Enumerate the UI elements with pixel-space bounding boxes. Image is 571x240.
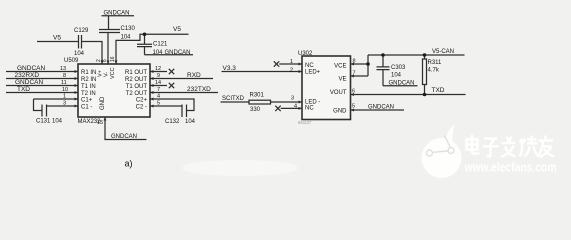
svg-text:GNDCAN: GNDCAN bbox=[389, 81, 415, 87]
svg-text:V-: V- bbox=[104, 72, 110, 77]
svg-text:LED+: LED+ bbox=[305, 69, 321, 75]
svg-text:4.7k: 4.7k bbox=[428, 68, 440, 74]
svg-text:6: 6 bbox=[352, 89, 355, 95]
svg-text:R2 OUT: R2 OUT bbox=[125, 77, 147, 83]
svg-text:R2 IN: R2 IN bbox=[81, 77, 96, 83]
svg-text:TXD: TXD bbox=[432, 87, 445, 94]
svg-text:a): a) bbox=[125, 159, 133, 169]
svg-text:V5: V5 bbox=[53, 35, 61, 42]
svg-text:330: 330 bbox=[250, 107, 261, 113]
svg-text:7: 7 bbox=[157, 87, 160, 93]
svg-text:R301: R301 bbox=[250, 92, 265, 98]
svg-text:VCE: VCE bbox=[334, 63, 346, 69]
svg-text:9: 9 bbox=[157, 73, 160, 79]
svg-text:V3.3: V3.3 bbox=[223, 65, 237, 72]
svg-text:3: 3 bbox=[63, 101, 66, 107]
svg-text:GNDCAN: GNDCAN bbox=[17, 65, 45, 72]
svg-text:GNDCAN: GNDCAN bbox=[15, 79, 43, 86]
svg-text:104: 104 bbox=[121, 35, 132, 41]
svg-text:8: 8 bbox=[353, 59, 356, 65]
svg-text:U509: U509 bbox=[64, 58, 79, 64]
svg-text:NC: NC bbox=[305, 106, 314, 112]
svg-text:5: 5 bbox=[352, 104, 355, 110]
svg-text:8: 8 bbox=[63, 73, 66, 79]
svg-text:RXD: RXD bbox=[187, 72, 201, 79]
svg-text:5: 5 bbox=[157, 101, 160, 107]
svg-text:R311: R311 bbox=[428, 60, 443, 66]
svg-text:GNDCAN: GNDCAN bbox=[368, 105, 394, 111]
svg-text:V5-CAN: V5-CAN bbox=[432, 49, 454, 55]
svg-text:7: 7 bbox=[353, 71, 356, 77]
svg-text:104: 104 bbox=[185, 119, 196, 125]
svg-text:3: 3 bbox=[291, 96, 294, 102]
svg-text:14: 14 bbox=[155, 80, 161, 86]
svg-text:V5: V5 bbox=[173, 26, 181, 33]
svg-text:C130: C130 bbox=[121, 26, 136, 32]
svg-text:SCITXD: SCITXD bbox=[222, 96, 245, 102]
svg-text:6: 6 bbox=[102, 59, 108, 62]
svg-text:GND: GND bbox=[100, 96, 106, 110]
svg-text:T1 IN: T1 IN bbox=[81, 84, 96, 90]
svg-text:C131 104: C131 104 bbox=[36, 119, 63, 125]
svg-text:T2 OUT: T2 OUT bbox=[126, 91, 148, 97]
svg-text:C121: C121 bbox=[153, 42, 168, 48]
svg-text:R1 IN: R1 IN bbox=[81, 70, 96, 76]
svg-text:T1 OUT: T1 OUT bbox=[126, 84, 148, 90]
svg-text:NC: NC bbox=[305, 63, 314, 69]
svg-text:10: 10 bbox=[62, 87, 68, 93]
svg-text:VCC: VCC bbox=[110, 67, 116, 79]
svg-text:VE: VE bbox=[338, 76, 346, 82]
svg-text:1: 1 bbox=[290, 59, 293, 65]
svg-text:104: 104 bbox=[391, 73, 402, 79]
svg-text:U302: U302 bbox=[298, 51, 313, 57]
svg-text:C132: C132 bbox=[165, 119, 180, 125]
svg-text:C1 -: C1 - bbox=[81, 105, 92, 111]
svg-text:GNDCAN: GNDCAN bbox=[165, 50, 191, 56]
svg-text:VOUT: VOUT bbox=[330, 90, 347, 96]
svg-text:2: 2 bbox=[290, 67, 293, 73]
svg-text:GNDCAN: GNDCAN bbox=[104, 11, 130, 17]
svg-text:R1 OUT: R1 OUT bbox=[125, 70, 147, 76]
svg-text:13: 13 bbox=[60, 66, 66, 72]
svg-text:1: 1 bbox=[63, 94, 66, 100]
svg-text:12: 12 bbox=[155, 66, 161, 72]
svg-text:C2+: C2+ bbox=[136, 98, 148, 104]
svg-text:C2 -: C2 - bbox=[136, 105, 147, 111]
svg-text:C1+: C1+ bbox=[81, 98, 93, 104]
svg-text:232TXD: 232TXD bbox=[187, 86, 211, 93]
svg-text:C129: C129 bbox=[74, 28, 89, 34]
svg-text:4: 4 bbox=[157, 94, 160, 100]
svg-text:104: 104 bbox=[153, 50, 164, 56]
svg-text:6N137: 6N137 bbox=[298, 120, 312, 125]
svg-text:MAX232: MAX232 bbox=[78, 119, 102, 125]
svg-text:232RXD: 232RXD bbox=[15, 72, 40, 79]
svg-text:www.elecfans.com: www.elecfans.com bbox=[464, 160, 557, 175]
svg-text:T2 IN: T2 IN bbox=[81, 91, 96, 97]
svg-text:4: 4 bbox=[294, 104, 297, 110]
svg-text:GNDCAN: GNDCAN bbox=[111, 134, 137, 140]
svg-text:C303: C303 bbox=[391, 65, 406, 71]
svg-text:TXD: TXD bbox=[17, 86, 30, 93]
svg-text:104: 104 bbox=[74, 51, 85, 57]
svg-text:16: 16 bbox=[110, 56, 116, 62]
svg-text:LED -: LED - bbox=[305, 99, 320, 105]
svg-text:11: 11 bbox=[61, 80, 67, 86]
svg-text:GND: GND bbox=[333, 109, 347, 115]
